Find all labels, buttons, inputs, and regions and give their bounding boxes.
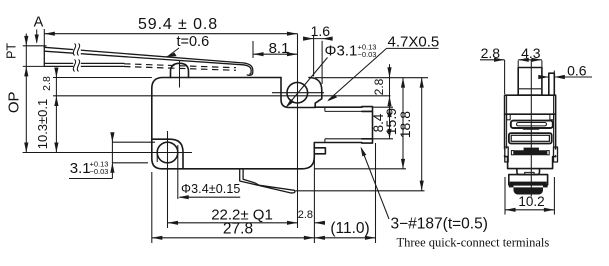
lever operating position solid part (44, 63, 124, 66)
dim 22.2 (168, 206, 298, 225)
svg-text:Φ3.1: Φ3.1 (325, 43, 358, 60)
svg-text:18.8: 18.8 (397, 111, 413, 138)
svg-text:8.1: 8.1 (269, 40, 290, 57)
svg-text:PT: PT (5, 43, 19, 59)
dim 4.3 (518, 45, 542, 62)
dim 2.8 bottom (298, 209, 325, 225)
svg-text:1.6: 1.6 (311, 23, 331, 39)
dim 0.6 (538, 63, 592, 80)
svg-text:3−#187(t=0.5): 3−#187(t=0.5) (391, 216, 488, 233)
plunger (171, 61, 189, 88)
label 3-#187 with leader (361, 147, 488, 233)
right stack top reference (315, 77, 428, 79)
lever hook end (243, 63, 253, 75)
mounting hole left (157, 131, 178, 228)
svg-text:A: A (34, 15, 44, 31)
dim 8.1 (253, 40, 298, 58)
svg-text:(11.0): (11.0) (330, 220, 369, 237)
OP reference line (mounting plane) (23, 152, 192, 154)
dim 10.2 (505, 177, 554, 215)
lever operating position dashed part (124, 64, 236, 71)
end view plunger (518, 61, 542, 96)
end view centerline (530, 60, 532, 197)
svg-text:0.6: 0.6 (567, 63, 587, 79)
dim 27.8 (152, 157, 315, 243)
lever tip extension line (23, 46, 47, 67)
dim 59.4 (44, 16, 297, 47)
svg-text:Φ3.4±0.15: Φ3.4±0.15 (181, 182, 240, 196)
dim 15.9 (314, 78, 406, 169)
dim (11.0) (314, 143, 375, 243)
end view terminal 3 / bottom foot (509, 169, 548, 194)
dim 2.8 right (372, 64, 392, 107)
label dia 3.1 (286, 43, 377, 108)
mounting boss right (281, 78, 322, 108)
end view terminal holder frame (509, 133, 552, 143)
label 4.7X0.5 (327, 34, 439, 102)
terminal block right (314, 107, 372, 144)
body outline (side view) (152, 78, 326, 169)
10.3 text (35, 99, 50, 150)
OP text (6, 91, 23, 113)
housing seam line (53, 95, 391, 97)
svg-text:3.1: 3.1 (70, 160, 91, 177)
dim 2.8 left and 10.3 (41, 68, 59, 153)
dim 3.1 bottom-left (69, 132, 155, 178)
svg-text:10.2: 10.2 (518, 194, 544, 209)
svg-text:t=0.6: t=0.6 (177, 34, 210, 50)
end view body (505, 95, 556, 168)
dim 18.8 (296, 78, 425, 191)
end view terminal 2 (NO) (505, 147, 558, 162)
label dia 3.4 (157, 145, 240, 199)
svg-text:OP: OP (6, 91, 23, 113)
terminal bottom angled (240, 169, 295, 193)
break squiggles upper (73, 44, 81, 56)
svg-text:2.8: 2.8 (298, 209, 313, 221)
lever free position (44, 46, 244, 66)
label A with arrow (34, 15, 44, 44)
dim 2.8 end view (480, 45, 505, 94)
svg-text:4.3: 4.3 (521, 45, 541, 61)
PT text (5, 43, 19, 59)
dim 1.6 (303, 23, 333, 84)
svg-text:27.8: 27.8 (223, 221, 253, 238)
label t=0.6 with leader (166, 34, 210, 57)
break squiggles lower (73, 60, 81, 72)
svg-text:−0.03: −0.03 (90, 167, 109, 176)
mounting boss left (152, 139, 183, 169)
end view 0.6 tab (549, 73, 555, 95)
caption serif (397, 236, 550, 250)
end view terminal 1 (NC) (511, 121, 553, 130)
svg-text:2.8: 2.8 (372, 78, 386, 95)
body top extension line (53, 77, 152, 79)
dim PT / OP vertical line (24, 34, 28, 153)
mounting hole right (272, 34, 324, 228)
dim 8.4 (371, 107, 393, 139)
svg-text:59.4 ± 0.8: 59.4 ± 0.8 (138, 16, 218, 33)
svg-text:−0.03: −0.03 (358, 50, 377, 59)
svg-text:2.8: 2.8 (41, 76, 53, 91)
svg-text:Three quick-connect terminals: Three quick-connect terminals (397, 236, 550, 250)
svg-text:10.3±0.1: 10.3±0.1 (35, 99, 50, 150)
